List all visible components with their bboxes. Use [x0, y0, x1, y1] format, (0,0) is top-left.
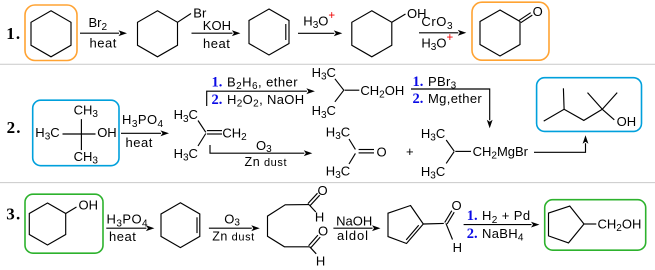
- svg-text:O: O: [318, 183, 328, 198]
- isobutylmagnesium bromide: [421, 126, 529, 182]
- arrow KOH/heat: [192, 18, 241, 51]
- svg-text:H: H: [453, 240, 462, 255]
- cyclopentene-1-carbaldehyde ring: [388, 206, 423, 244]
- svg-text:aldol: aldol: [337, 228, 369, 243]
- svg-text:O: O: [377, 144, 387, 159]
- separator line between row 1 and row 2: [0, 63, 655, 65]
- svg-text:KOH: KOH: [203, 18, 231, 33]
- arrow 1.PBr3 / 2.Mg,ether (bends down): [411, 74, 493, 129]
- svg-text:O: O: [318, 223, 328, 238]
- bond C-OH (row3): [66, 207, 77, 214]
- cyclopentane ring: [549, 206, 585, 243]
- CHO: C-H bond: [446, 223, 453, 239]
- svg-text:1.: 1.: [467, 208, 478, 224]
- svg-text:3.: 3.: [6, 205, 21, 224]
- svg-text:Mg,ether: Mg,ether: [428, 91, 482, 106]
- arrow Br2/heat: [80, 15, 127, 50]
- ring double bond inner line: [406, 225, 419, 240]
- reactant box (green) around cyclohexanol: [25, 194, 103, 253]
- product box (orange) around cyclohexanone: [472, 2, 549, 60]
- svg-text:2.: 2.: [413, 91, 424, 107]
- C=O double bond: [521, 15, 533, 23]
- double bond inner line (row3): [196, 217, 198, 233]
- separator line between row 2 and row 3: [0, 182, 655, 184]
- isobutylene (2-methylpropene): [174, 107, 248, 163]
- svg-text:O: O: [533, 4, 543, 19]
- tert-butanol structure: [35, 103, 116, 167]
- svg-text:+: +: [406, 144, 414, 159]
- arrow H3O+: [298, 10, 342, 36]
- arrow O3 / Zn dust (row2): [210, 138, 312, 169]
- bond ring-CH2OH: [584, 223, 596, 225]
- svg-text:OH: OH: [79, 197, 99, 212]
- top CHO: C=O double bond: [310, 195, 320, 205]
- arrow NaOH/aldol: [333, 213, 380, 243]
- CHO: C=O double bond: [447, 212, 454, 224]
- bottom CHO: C=O double bond: [311, 237, 320, 248]
- arrow 1.H2+Pd / 2.NaBH4: [464, 208, 540, 243]
- top CHO: C-H bond: [309, 205, 316, 212]
- double bond inner line: [285, 24, 287, 40]
- svg-text:NaOH: NaOH: [336, 213, 372, 228]
- cyclohexene ring (row3): [161, 203, 200, 248]
- arrow H3PO4/heat (row3): [106, 212, 154, 244]
- acetone: [326, 124, 387, 181]
- 2,4-dimethyl-2-pentanol skeletal structure: [544, 88, 636, 129]
- cyclohexanol ring: [352, 11, 392, 57]
- svg-text:1.: 1.: [6, 24, 21, 43]
- svg-text:H2 + Pd: H2 + Pd: [482, 208, 530, 226]
- cyclohexane ring: [31, 11, 71, 57]
- bromocyclohexane ring: [138, 11, 178, 57]
- svg-text:H: H: [315, 209, 324, 224]
- bond C-OH: [392, 14, 406, 22]
- svg-text:heat: heat: [126, 135, 153, 150]
- svg-text:1.: 1.: [212, 74, 223, 90]
- reactant box (orange) around cyclohexane: [25, 5, 77, 61]
- arrow CrO3 / H3O+: [419, 14, 466, 53]
- svg-text:heat: heat: [203, 36, 230, 51]
- svg-text:OH: OH: [617, 114, 637, 129]
- svg-text:H: H: [316, 254, 325, 269]
- isobutanol (2-methyl-1-propanol): [312, 65, 405, 121]
- bond C-Br: [178, 14, 192, 23]
- cyclohexene ring: [249, 9, 289, 55]
- hexanedial chain: [268, 205, 310, 247]
- svg-text:OH: OH: [97, 125, 117, 140]
- svg-text:2.: 2.: [212, 92, 223, 108]
- product box (green) around cyclopentylmethanol: [545, 200, 646, 251]
- arrow 1.B2H6,ether / 2.H2O2,NaOH: [207, 74, 315, 109]
- svg-text:heat: heat: [109, 229, 136, 244]
- svg-text:heat: heat: [90, 35, 117, 50]
- svg-text:H3PO4: H3PO4: [107, 212, 149, 230]
- svg-text:O: O: [452, 198, 462, 213]
- svg-text:Zn dust: Zn dust: [212, 230, 255, 244]
- product box (cyan) around 2,4-dimethyl-2-pentanol: [537, 78, 642, 132]
- arrow from Grignard to product (bends up): [534, 135, 588, 152]
- svg-text:NaBH4: NaBH4: [482, 226, 524, 244]
- svg-text:CH2MgBr: CH2MgBr: [473, 144, 529, 162]
- bottom CHO: C-H bond: [310, 247, 317, 254]
- svg-text:H3PO4: H3PO4: [122, 112, 164, 130]
- bond ring-CHO: [423, 222, 444, 225]
- svg-text:1.: 1.: [413, 74, 424, 90]
- svg-text:2.: 2.: [7, 118, 22, 137]
- arrow H3PO4/heat (row2): [121, 112, 169, 150]
- cyclohexanone ring: [480, 10, 520, 56]
- svg-text:Zn dust: Zn dust: [245, 155, 288, 169]
- arrow O3 / Zn dust (row3): [209, 211, 260, 243]
- cyclohexanol ring (row3): [29, 203, 65, 245]
- svg-text:2.: 2.: [467, 226, 478, 242]
- reactant box (cyan) around tert-butanol: [33, 100, 119, 166]
